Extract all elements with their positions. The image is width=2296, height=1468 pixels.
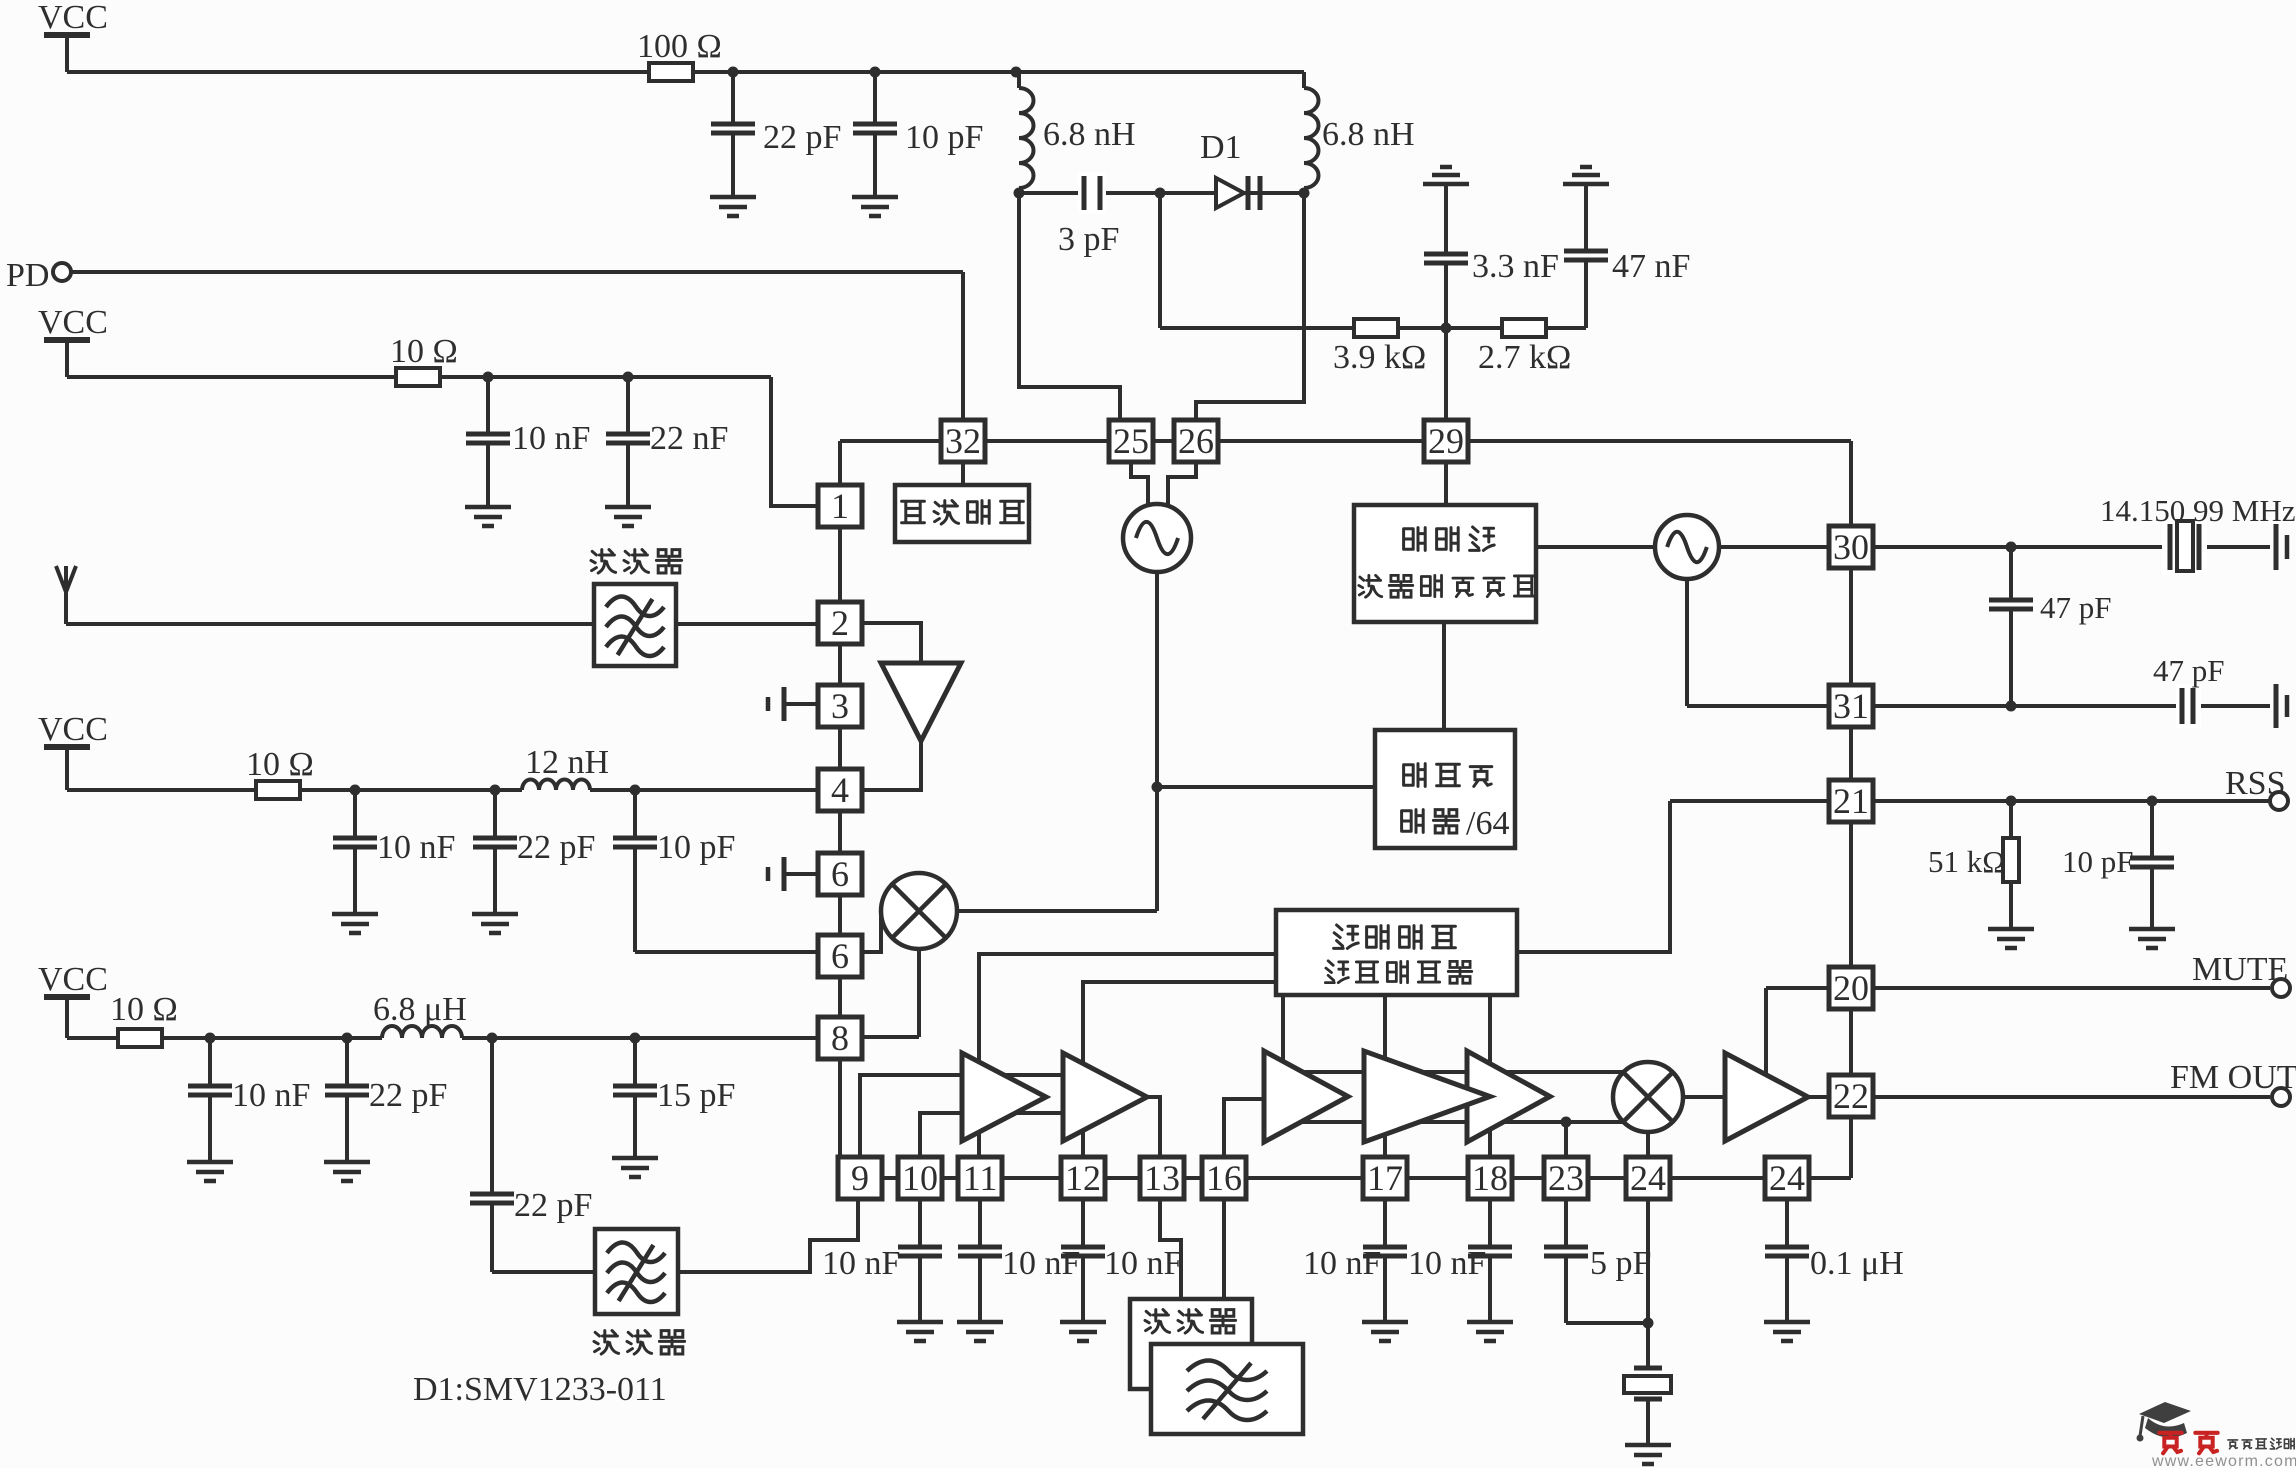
svg-text:22 pF: 22 pF	[763, 119, 841, 156]
svg-text:30: 30	[1833, 527, 1869, 567]
svg-text:MUTE: MUTE	[2192, 951, 2288, 988]
svg-text:10 Ω: 10 Ω	[390, 333, 458, 370]
svg-text:2: 2	[831, 603, 849, 643]
svg-text:10 nF: 10 nF	[232, 1077, 310, 1114]
svg-text:10 nF: 10 nF	[1104, 1245, 1182, 1282]
svg-text:6: 6	[831, 936, 849, 976]
svg-text:3.9 kΩ: 3.9 kΩ	[1333, 339, 1426, 376]
svg-text:47 nF: 47 nF	[1612, 248, 1690, 285]
svg-text:17: 17	[1367, 1158, 1403, 1198]
svg-text:22 pF: 22 pF	[369, 1077, 447, 1114]
svg-text:VCC: VCC	[38, 0, 108, 36]
svg-text:VCC: VCC	[38, 711, 108, 748]
svg-text:10: 10	[902, 1158, 938, 1198]
svg-text:26: 26	[1178, 421, 1214, 461]
svg-text:10 nF: 10 nF	[1002, 1245, 1080, 1282]
svg-text:0.1 μH: 0.1 μH	[1810, 1245, 1904, 1282]
svg-text:3: 3	[831, 686, 849, 726]
svg-text:20: 20	[1833, 968, 1869, 1008]
svg-text:1: 1	[831, 486, 849, 526]
svg-text:21: 21	[1833, 781, 1869, 821]
svg-text:23: 23	[1548, 1158, 1584, 1198]
svg-text:12: 12	[1065, 1158, 1101, 1198]
svg-text:8: 8	[831, 1018, 849, 1058]
svg-text:47 pF: 47 pF	[2153, 653, 2225, 688]
svg-text:10 pF: 10 pF	[657, 829, 735, 866]
svg-text:www.eeworm.com: www.eeworm.com	[2151, 1453, 2296, 1468]
svg-text:FM OUT: FM OUT	[2170, 1059, 2296, 1096]
svg-text:D1: D1	[1200, 129, 1242, 166]
svg-text:10 nF: 10 nF	[822, 1245, 900, 1282]
svg-text:18: 18	[1472, 1158, 1508, 1198]
svg-text:6.8 μH: 6.8 μH	[373, 991, 467, 1028]
svg-text:6: 6	[831, 854, 849, 894]
svg-text:10 pF: 10 pF	[905, 119, 983, 156]
svg-text:2.7 kΩ: 2.7 kΩ	[1478, 339, 1571, 376]
svg-text:22: 22	[1833, 1076, 1869, 1116]
svg-text:VCC: VCC	[38, 304, 108, 341]
svg-text:12 nH: 12 nH	[525, 744, 609, 781]
svg-text:15 pF: 15 pF	[657, 1077, 735, 1114]
svg-text:14.150 99 MHz: 14.150 99 MHz	[2100, 493, 2295, 528]
svg-text:10 nF: 10 nF	[377, 829, 455, 866]
svg-text:10 Ω: 10 Ω	[246, 746, 314, 783]
svg-text:51 kΩ: 51 kΩ	[1928, 844, 2005, 879]
svg-text:24: 24	[1769, 1158, 1805, 1198]
svg-text:6.8 nH: 6.8 nH	[1322, 116, 1415, 153]
svg-text:9: 9	[851, 1158, 869, 1198]
svg-text:3.3 nF: 3.3 nF	[1472, 248, 1559, 285]
svg-text:22 nF: 22 nF	[650, 420, 728, 457]
svg-text:VCC: VCC	[38, 961, 108, 998]
svg-text:4: 4	[831, 770, 849, 810]
svg-text:16: 16	[1206, 1158, 1242, 1198]
svg-text:3 pF: 3 pF	[1058, 221, 1119, 258]
svg-text:100 Ω: 100 Ω	[637, 28, 722, 65]
svg-text:32: 32	[945, 421, 981, 461]
svg-text:10 Ω: 10 Ω	[110, 991, 178, 1028]
svg-text:10 nF: 10 nF	[1303, 1245, 1381, 1282]
svg-text:22 pF: 22 pF	[517, 829, 595, 866]
svg-text:11: 11	[963, 1158, 998, 1198]
svg-text:25: 25	[1113, 421, 1149, 461]
svg-text:/64: /64	[1466, 805, 1509, 842]
svg-text:10 nF: 10 nF	[512, 420, 590, 457]
svg-text:10 pF: 10 pF	[2062, 844, 2134, 879]
svg-text:29: 29	[1428, 421, 1464, 461]
svg-text:6.8 nH: 6.8 nH	[1043, 116, 1136, 153]
svg-text:RSS: RSS	[2225, 765, 2286, 802]
svg-text:22 pF: 22 pF	[514, 1187, 592, 1224]
svg-text:10 nF: 10 nF	[1408, 1245, 1486, 1282]
svg-text:PD: PD	[6, 257, 49, 294]
svg-text:47 pF: 47 pF	[2040, 590, 2112, 625]
svg-text:24: 24	[1630, 1158, 1666, 1198]
svg-text:5 pF: 5 pF	[1590, 1245, 1651, 1282]
svg-text:13: 13	[1144, 1158, 1180, 1198]
svg-text:31: 31	[1833, 686, 1869, 726]
svg-text:D1:SMV1233-011: D1:SMV1233-011	[413, 1371, 667, 1408]
